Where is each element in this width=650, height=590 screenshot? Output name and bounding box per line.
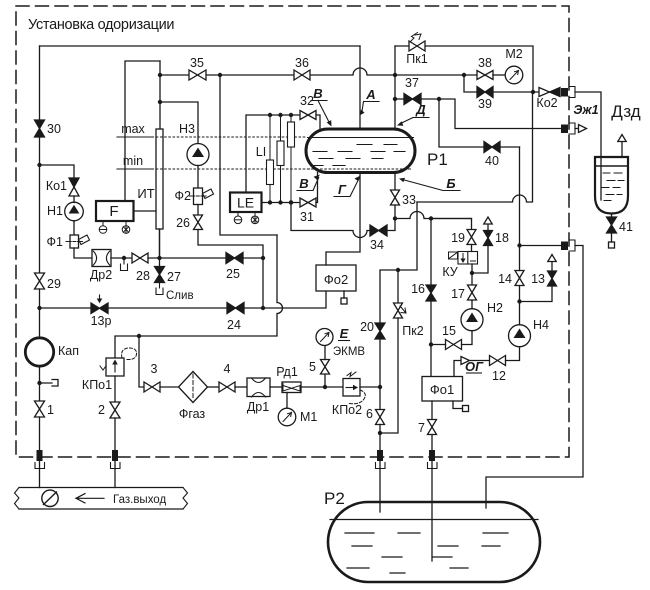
pointer B top [311, 101, 330, 124]
gauge M1 [286, 393, 288, 409]
wire: valve18 vent branch [472, 246, 488, 274]
svg-text:Газ.выход: Газ.выход [113, 494, 166, 506]
svg-text:М2: М2 [505, 47, 522, 61]
wire: IT/F loop top [125, 61, 160, 201]
wire [39, 417, 41, 450]
svg-text:Пк2: Пк2 [402, 324, 423, 338]
node [378, 431, 382, 435]
valve 1 [35, 401, 45, 417]
wire: x160 column [159, 61, 161, 129]
svg-text:F: F [109, 203, 118, 220]
level tube IT [156, 129, 163, 229]
svg-text:В: В [299, 176, 308, 191]
svg-text:Ф1: Ф1 [47, 235, 64, 249]
svg-text:31: 31 [300, 210, 314, 224]
flow device in pipe [42, 490, 58, 506]
wire: valve3 branch [139, 336, 144, 387]
wire: y202 line with jump over x520 [417, 92, 533, 202]
svg-text:Н3: Н3 [179, 122, 195, 136]
valve 30 [35, 120, 45, 137]
svg-text:7: 7 [418, 421, 425, 435]
node [268, 113, 272, 117]
valve 39 [477, 87, 493, 98]
svg-text:36: 36 [295, 56, 309, 70]
wire to Fo2 (vertical x277 jumps over) [244, 291, 326, 308]
svg-text:ОГ: ОГ [465, 359, 484, 374]
node [158, 100, 162, 104]
svg-text:35: 35 [190, 56, 204, 70]
svg-text:Др2: Др2 [90, 268, 112, 282]
LE terminals [238, 212, 255, 216]
svg-text:5: 5 [309, 360, 316, 374]
valve 3 [144, 382, 160, 392]
bulkhead fitting (P2 line) [561, 242, 568, 251]
vent stem + triangle [551, 262, 553, 272]
svg-text:Установка одоризации: Установка одоризации [28, 17, 174, 33]
node [470, 271, 474, 275]
valve 28 [132, 253, 148, 263]
node [531, 90, 535, 94]
svg-text:13р: 13р [91, 314, 112, 328]
wire: 13p line [40, 307, 92, 309]
pointer B bottom [297, 178, 319, 191]
valve 14 [515, 271, 524, 286]
safety valve Pk2 [397, 270, 399, 303]
svg-text:30: 30 [47, 122, 61, 136]
node [278, 200, 282, 204]
valve 12 [490, 356, 506, 366]
wire [430, 301, 432, 377]
wire: ejector line Ezh1 [439, 99, 561, 129]
wire pump to valve15 [462, 331, 473, 345]
wire: top main pipe [40, 45, 361, 47]
svg-text:Слив: Слив [166, 290, 194, 302]
node: drain junction [122, 256, 126, 260]
svg-text:Б: Б [446, 176, 455, 191]
wire [108, 307, 227, 309]
wire [301, 386, 343, 388]
wire: Dzd dip tube (over tank) [600, 158, 602, 200]
wire: left main column upper [39, 46, 41, 120]
P2 liquid dashes [345, 533, 508, 573]
restrictor Dr1 [247, 378, 270, 397]
valve 19 [467, 230, 476, 245]
wire: P2 middle pipe inside [431, 502, 433, 561]
valve 7 [428, 420, 437, 435]
valve 26 [194, 215, 203, 230]
node [289, 200, 293, 204]
drain of Fo2 [343, 291, 345, 298]
svg-text:max: max [121, 122, 145, 136]
pump H4 [509, 325, 531, 347]
svg-text:37: 37 [405, 76, 419, 90]
wire [471, 245, 473, 252]
wire: valve33 drop [394, 173, 396, 191]
svg-text:12: 12 [492, 369, 506, 383]
wire [208, 386, 220, 388]
node: valve5 branch [323, 385, 327, 389]
wire: 39 line [464, 75, 539, 92]
transmitter LE [230, 193, 262, 213]
pointer D [401, 118, 430, 124]
svg-text:33: 33 [402, 193, 416, 207]
pump H1 [65, 202, 84, 221]
valve 18 [484, 231, 493, 246]
filter Fgaz [179, 372, 208, 403]
gas outlet pipe [19, 488, 183, 510]
safety valve Pk1 [409, 41, 425, 51]
level rod 2 [280, 115, 282, 203]
bulkhead fitting (left, on border) [37, 450, 43, 461]
wire [114, 418, 116, 450]
capillary device Kap [25, 338, 53, 366]
level rod 3 [290, 115, 292, 203]
wire [379, 425, 381, 451]
svg-text:Фо1: Фо1 [430, 382, 454, 397]
svg-text:32: 32 [300, 94, 314, 108]
wire: valve19 branch [431, 219, 472, 230]
node [289, 200, 293, 204]
wire: y218 line with jump over x417 [395, 212, 472, 219]
wire: P2 right pipe inside [485, 502, 487, 508]
wire: 13 vent branch [520, 286, 553, 302]
svg-text:М1: М1 [300, 410, 317, 424]
valve 40 [484, 142, 500, 153]
svg-text:20: 20 [360, 320, 374, 334]
check valve Ko1 [69, 178, 79, 187]
wire to P2 [486, 246, 583, 509]
node [429, 216, 433, 220]
drain Sliv symbol [156, 283, 163, 295]
valve 41 [611, 214, 613, 218]
wire: P1 inlet pipe A [359, 46, 361, 129]
svg-text:16: 16 [411, 282, 425, 296]
wire to Dzd [575, 92, 601, 200]
wire [39, 289, 41, 338]
vent stem + triangle [487, 224, 489, 231]
wire [506, 347, 520, 361]
wire [471, 300, 473, 309]
valve 20 [375, 323, 385, 339]
check valve Ko2 [539, 88, 550, 97]
valve 35 [189, 70, 206, 80]
filter F1 [70, 235, 79, 248]
wire [270, 386, 282, 388]
node [393, 216, 397, 220]
wire [73, 221, 75, 235]
F terminals [103, 221, 126, 226]
node [278, 113, 282, 117]
svg-text:14: 14 [498, 272, 512, 286]
wire to odorant column [360, 386, 380, 388]
wire [197, 205, 199, 216]
bulkhead fitting [429, 450, 435, 461]
valve 33 [391, 190, 400, 205]
wire: x277 column with jump over y308 [115, 235, 283, 358]
svg-text:Эж1: Эж1 [573, 103, 598, 117]
wire: Ko1 branch [40, 165, 75, 178]
svg-text:26: 26 [176, 216, 190, 230]
wire [471, 264, 473, 285]
wire valve26 to x263 column [198, 230, 263, 309]
restrictor Dr2 [92, 250, 111, 267]
svg-text:38: 38 [478, 56, 492, 70]
solenoid KU [449, 252, 458, 259]
svg-text:А: А [365, 87, 375, 102]
svg-text:Р2: Р2 [324, 489, 345, 508]
wire: Fo2 top feed from P1 bottom [326, 173, 360, 266]
wire pump H4 top [519, 286, 521, 325]
svg-text:Е: Е [340, 326, 349, 341]
wire valve32 to vessel top [316, 115, 320, 129]
svg-text:Д: Д [415, 102, 426, 117]
wire: 35/36 line with jump over x360 [160, 68, 395, 75]
Dzd liquid dashes [601, 173, 624, 201]
wire into gas pipe [114, 461, 116, 488]
wire Pk2 return [380, 318, 398, 433]
svg-text:28: 28 [136, 269, 150, 283]
wire: x520 column (y202 jumps over) [519, 147, 521, 246]
svg-text:17: 17 [451, 287, 465, 301]
svg-text:ЭКМВ: ЭКМВ [333, 346, 366, 358]
wire: Fo1 bottom [431, 401, 433, 420]
ejector outlet arrow [575, 128, 579, 130]
svg-text:Дзд: Дзд [611, 102, 640, 121]
svg-text:Фгаз: Фгаз [179, 407, 206, 421]
node [378, 385, 382, 389]
wire [235, 386, 247, 388]
wire [431, 435, 433, 451]
wire: LE top line to valve 32 [246, 115, 300, 193]
node [218, 73, 222, 77]
wire: 38/M2 line [395, 74, 477, 76]
P1 liquid dashes [311, 145, 405, 166]
wire [394, 205, 396, 219]
svg-text:Ко1: Ко1 [46, 179, 67, 193]
wire [39, 367, 41, 402]
wire: Pk1 line [395, 46, 533, 92]
wire: P2 feed line right [520, 245, 562, 247]
wire: valve40 branch [439, 99, 520, 147]
enclosure dashed border [16, 6, 569, 457]
svg-text:LE: LE [237, 195, 254, 211]
svg-text:Др1: Др1 [247, 400, 269, 414]
valve 38 [477, 71, 493, 80]
drain symbol [121, 258, 128, 271]
svg-text:41: 41 [619, 220, 633, 234]
valve 13p (three-way with actuator) [91, 303, 108, 314]
pointer A [362, 102, 379, 114]
valve 36 [294, 70, 310, 80]
valve 2 [110, 376, 120, 418]
svg-text:Р1: Р1 [427, 150, 448, 169]
node [437, 97, 441, 101]
gauge EKMV [316, 329, 333, 346]
pump H2 [461, 309, 483, 331]
svg-text:18: 18 [495, 231, 509, 245]
svg-text:В: В [313, 86, 322, 101]
svg-text:Н1: Н1 [47, 204, 63, 218]
valve 17 [468, 285, 477, 300]
wire: x417 column [380, 202, 417, 323]
node: junction Ko1 branch [37, 163, 41, 167]
wire [324, 346, 326, 360]
node [517, 299, 521, 303]
regulator KPo2 [343, 379, 360, 397]
svg-text:КУ: КУ [442, 265, 457, 279]
svg-text:Пк1: Пк1 [406, 52, 427, 66]
flow arrow left [76, 494, 104, 503]
valve 34 [370, 225, 387, 236]
wire: LE loop column x220 [220, 75, 277, 235]
wire valve14 top [519, 246, 521, 271]
pump H3 [187, 144, 209, 166]
node [261, 256, 265, 260]
wire [148, 257, 226, 259]
svg-text:Ко2: Ко2 [536, 96, 557, 110]
probe connection [42, 380, 59, 387]
drain square [611, 233, 613, 242]
bulkhead fitting [112, 450, 118, 461]
valve 31 [300, 198, 316, 207]
svg-text:КПо1: КПо1 [82, 378, 112, 392]
pointer G [334, 179, 359, 197]
valve 16 [426, 285, 436, 301]
wire tube bottom [159, 229, 161, 256]
svg-text:39: 39 [478, 97, 492, 111]
valve 25 [226, 253, 243, 264]
valve 5 [321, 360, 330, 388]
wire [73, 196, 75, 203]
node [393, 97, 397, 101]
wire: 34 line from LE net [291, 203, 370, 238]
svg-text:40: 40 [485, 154, 499, 168]
regulator KPo1 [106, 358, 124, 376]
vessel P1 [306, 129, 415, 173]
wire: H3 branch [160, 102, 198, 144]
filter F2 [194, 188, 203, 205]
node [158, 73, 162, 77]
node [261, 306, 265, 310]
transmitter F [96, 201, 134, 221]
valve 29 [35, 273, 45, 289]
wire into gas pipe [39, 461, 41, 488]
node [429, 342, 433, 346]
node: junction probe [37, 381, 41, 385]
svg-text:19: 19 [451, 231, 465, 245]
Fo1 drain [453, 401, 463, 409]
regulator Rd1 [282, 382, 301, 393]
svg-text:29: 29 [47, 277, 61, 291]
wire [74, 248, 92, 258]
svg-text:34: 34 [370, 238, 384, 252]
wire [243, 257, 263, 259]
valve 37 [395, 98, 439, 100]
svg-text:ИТ: ИТ [137, 186, 154, 201]
node Pk2 top [396, 268, 400, 272]
wire F to tube [134, 210, 157, 212]
svg-text:13: 13 [531, 272, 545, 286]
bulkhead fitting (Ko2 line) [561, 88, 568, 97]
max level mark [117, 136, 151, 138]
svg-text:Фо2: Фо2 [324, 272, 348, 287]
svg-text:3: 3 [151, 362, 158, 376]
wire [111, 257, 132, 259]
svg-text:24: 24 [227, 318, 241, 332]
wire: x431 column [430, 219, 432, 286]
wire into P2 [379, 461, 381, 512]
svg-text:6: 6 [366, 407, 373, 421]
svg-text:КПо2: КПо2 [332, 403, 362, 417]
svg-text:Кап: Кап [58, 344, 79, 358]
P1 liquid level [308, 137, 414, 139]
node: IT column junction [157, 256, 161, 260]
valve 24 [227, 303, 244, 314]
wire: pipe D x395 [394, 46, 396, 129]
svg-text:2: 2 [98, 403, 105, 417]
valve 13 [548, 271, 557, 286]
wire [197, 166, 199, 189]
svg-text:Рд1: Рд1 [276, 365, 298, 379]
node [268, 200, 272, 204]
Dzd vent [621, 142, 623, 158]
bulkhead fitting (Ezh1) [561, 125, 568, 134]
svg-text:min: min [123, 154, 143, 168]
P2 liquid level [330, 519, 538, 521]
flow arrow OG [454, 361, 461, 377]
tank Dzd [595, 157, 628, 214]
valve 27 [155, 267, 165, 283]
P1 bottom dotted row [308, 168, 412, 170]
wire: left column middle [39, 137, 41, 273]
wire [387, 219, 395, 231]
bulkhead fitting [377, 450, 383, 461]
svg-text:27: 27 [167, 270, 181, 284]
node [517, 243, 521, 247]
valve 32 [300, 111, 316, 120]
wire valve31 to vessel bottom [316, 173, 318, 203]
min level mark [117, 168, 151, 170]
svg-text:1: 1 [47, 403, 54, 417]
valve 4 [219, 382, 235, 392]
node [393, 73, 397, 77]
vessel P2 [328, 502, 540, 582]
wire IT tube bottom [159, 229, 161, 267]
svg-text:Г: Г [338, 182, 347, 197]
valve 15 [446, 340, 462, 350]
svg-text:4: 4 [224, 362, 231, 376]
svg-text:25: 25 [226, 267, 240, 281]
separator Fo1 [422, 377, 463, 402]
svg-text:15: 15 [442, 324, 456, 338]
pointer Б [403, 180, 461, 191]
node [289, 113, 293, 117]
wire into P2 deep [431, 461, 433, 561]
gauge M2 [493, 74, 505, 76]
node [462, 73, 466, 77]
wire [379, 339, 381, 410]
svg-text:Н2: Н2 [487, 301, 503, 315]
wire [431, 344, 446, 346]
node: junction 13p line [37, 306, 41, 310]
svg-text:LI: LI [256, 145, 266, 159]
svg-text:Ф2: Ф2 [175, 189, 192, 203]
node: KPo1 branch [137, 334, 141, 338]
wire [160, 386, 179, 388]
separator Fo2 [316, 265, 356, 291]
wire: P2 left pipe inside [379, 502, 381, 512]
valve 6 [376, 410, 385, 425]
